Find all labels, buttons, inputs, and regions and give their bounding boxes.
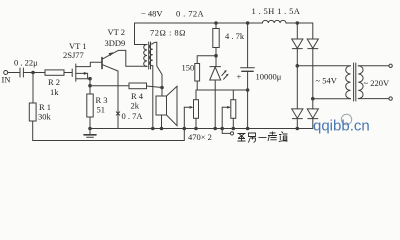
resistor R4 2k bbox=[129, 83, 147, 89]
node LED top junction bbox=[215, 54, 218, 57]
svg-text:72Ω : 8Ω: 72Ω : 8Ω bbox=[150, 28, 186, 38]
wire common return to other channel bbox=[33, 129, 185, 141]
transformer T1 secondary 8ohm bbox=[150, 44, 153, 66]
svg-text:1 . 5H 1 . 5A: 1 . 5H 1 . 5A bbox=[252, 6, 301, 16]
wire bbox=[286, 23, 313, 39]
resistor R5 4.7k bbox=[213, 29, 219, 48]
svg-text:150: 150 bbox=[182, 63, 195, 73]
wire LED cathode down bbox=[214, 80, 216, 129]
wire bbox=[296, 119, 298, 129]
svg-text:R 3: R 3 bbox=[96, 95, 108, 105]
transformer T2 secondary 220V bbox=[358, 66, 363, 99]
node R3 top junction bbox=[89, 84, 92, 87]
diode D4 bbox=[307, 109, 318, 119]
transformer T2 primary 54V bbox=[346, 66, 351, 99]
svg-text:470× 2: 470× 2 bbox=[188, 132, 212, 142]
wire bbox=[32, 73, 34, 104]
wire bbox=[32, 121, 34, 141]
potentiometer RP1 470 bbox=[184, 90, 198, 129]
wire bbox=[215, 48, 217, 67]
node choke junctions on rail bbox=[215, 22, 299, 25]
wire speaker bottom bbox=[161, 115, 163, 129]
wire bbox=[312, 119, 314, 129]
LED indicator bbox=[210, 67, 229, 80]
wire bbox=[196, 81, 198, 90]
diode D1 bbox=[292, 39, 303, 49]
wire bridge left rail bbox=[296, 23, 298, 39]
transistor VT2 3DD9 bbox=[102, 50, 118, 71]
label to other channel (Chinese) bbox=[238, 132, 288, 143]
node bottom rail junctions bbox=[89, 127, 299, 130]
svg-text:+: + bbox=[237, 72, 242, 82]
svg-text:51: 51 bbox=[97, 105, 106, 115]
wire VT2 emitter to transformer bbox=[118, 50, 147, 66]
node VT1 source junction bbox=[89, 77, 92, 80]
svg-text:qqibb.cn: qqibb.cn bbox=[313, 118, 370, 135]
svg-text:0 . 22μ: 0 . 22μ bbox=[14, 58, 38, 68]
wire bbox=[312, 49, 314, 109]
speaker bbox=[156, 86, 177, 125]
svg-text:VT 2: VT 2 bbox=[108, 27, 126, 37]
wire 150 top bbox=[197, 56, 216, 64]
node speaker top junction bbox=[161, 86, 164, 89]
capacitor C2 10000u bbox=[241, 23, 255, 129]
transformer T2 core bbox=[354, 63, 356, 101]
wire -48V drop to transformer T1 bbox=[135, 23, 148, 45]
svg-text:4 . 7k: 4 . 7k bbox=[225, 31, 245, 41]
svg-text:30k: 30k bbox=[38, 112, 52, 122]
wire secondary bottom to rail bbox=[152, 66, 154, 129]
node cap junctions bbox=[246, 89, 249, 130]
node AC input right bbox=[312, 97, 315, 100]
transformer T1 primary 72ohm bbox=[144, 45, 147, 67]
diode D2 bbox=[307, 39, 318, 49]
svg-text:1k: 1k bbox=[50, 87, 59, 97]
potentiometer RP2 470 bbox=[222, 90, 236, 129]
wire hum-balance bus bbox=[196, 89, 248, 91]
svg-text:0 . 72A: 0 . 72A bbox=[176, 9, 205, 19]
svg-text:~ 54V: ~ 54V bbox=[316, 76, 338, 86]
capacitor C1 0.22u bbox=[20, 68, 23, 77]
wire VT2 collector down bbox=[117, 71, 119, 129]
wire bbox=[296, 49, 298, 109]
svg-text:0 . 7A: 0 . 7A bbox=[122, 111, 144, 121]
svg-text:R 4: R 4 bbox=[131, 91, 144, 101]
resistor R6 150 bbox=[195, 64, 200, 82]
resistor R1 30k bbox=[29, 103, 36, 121]
ground bbox=[84, 129, 96, 138]
current probe mark 0.7A bbox=[116, 112, 119, 115]
svg-text:R 2: R 2 bbox=[48, 77, 60, 87]
wire R4 right bbox=[147, 86, 163, 88]
input terminal IN bbox=[4, 71, 8, 75]
svg-text:− 48V: − 48V bbox=[141, 9, 163, 19]
wire mains terminal bottom bbox=[358, 97, 392, 100]
node AC input left bbox=[296, 65, 299, 68]
net -48V top rail bbox=[135, 22, 263, 24]
resistor R3 51 bbox=[87, 94, 93, 117]
svg-text:2k: 2k bbox=[131, 101, 140, 111]
svg-text:~ 220V: ~ 220V bbox=[364, 78, 390, 88]
wire bbox=[215, 23, 217, 29]
wire bbox=[89, 117, 91, 129]
wire to other channel terminal bbox=[222, 129, 233, 135]
svg-text:R 1: R 1 bbox=[39, 102, 51, 112]
watermark qqibb.cn bbox=[313, 114, 370, 134]
wire R4 left bbox=[90, 85, 129, 87]
wire AC lead upper bbox=[297, 65, 350, 67]
wire bbox=[8, 72, 20, 74]
wire mains terminal top bbox=[358, 64, 392, 67]
node input junction bbox=[32, 71, 35, 74]
svg-text:10000μ: 10000μ bbox=[256, 72, 282, 82]
wire bbox=[23, 72, 45, 74]
inductor L1 1.5H choke bbox=[262, 20, 286, 23]
svg-text:3DD9: 3DD9 bbox=[105, 38, 126, 48]
wire bbox=[89, 79, 91, 94]
transistor VT1 2SJ77 bbox=[72, 62, 102, 81]
svg-text:IN: IN bbox=[2, 75, 11, 85]
svg-text:2SJ77: 2SJ77 bbox=[63, 50, 84, 60]
net ground bottom rail bbox=[90, 128, 313, 130]
wire secondary top to speaker bbox=[153, 42, 162, 96]
wire bbox=[64, 72, 72, 74]
resistor R2 1k bbox=[45, 70, 64, 75]
transformer T1 core bbox=[149, 42, 151, 69]
wire AC lead lower bbox=[313, 98, 351, 100]
diode D3 bbox=[292, 109, 303, 119]
